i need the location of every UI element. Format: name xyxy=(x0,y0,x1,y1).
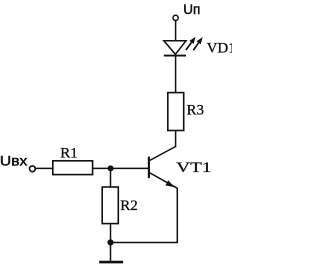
wire xyxy=(110,224,112,245)
terminal Uвх xyxy=(30,166,36,172)
node junction bottom xyxy=(107,239,113,245)
terminal Uп xyxy=(173,15,178,20)
svg-text:R2: R2 xyxy=(120,198,138,214)
svg-text:Uвх: Uвх xyxy=(0,154,28,169)
svg-text:R1: R1 xyxy=(60,145,78,161)
LED arrow 2 xyxy=(193,37,202,50)
svg-text:Uп: Uп xyxy=(183,2,200,17)
svg-text:R3: R3 xyxy=(187,103,205,119)
transistor VT1 emitter line with arrow xyxy=(149,172,177,188)
wire xyxy=(93,167,149,169)
ground stem xyxy=(110,245,112,261)
wire bottom rail xyxy=(111,188,178,243)
wire xyxy=(175,56,177,93)
transistor VT1 collector line xyxy=(149,146,176,161)
wire xyxy=(175,131,177,148)
svg-text:VT1: VT1 xyxy=(176,160,211,176)
transistor VT1 base bar xyxy=(148,157,150,179)
wire xyxy=(175,21,177,41)
node junction B xyxy=(108,165,114,171)
svg-text:VD1: VD1 xyxy=(207,41,232,57)
LED VD1 cathode bar xyxy=(164,55,186,57)
LED arrow 1 xyxy=(186,37,196,50)
wire xyxy=(35,167,53,169)
ground bar xyxy=(99,261,123,264)
resistor R1 xyxy=(53,161,93,175)
resistor R2 xyxy=(102,187,118,224)
wire xyxy=(110,168,112,187)
resistor R3 xyxy=(168,93,184,131)
LED VD1 triangle xyxy=(164,41,186,55)
